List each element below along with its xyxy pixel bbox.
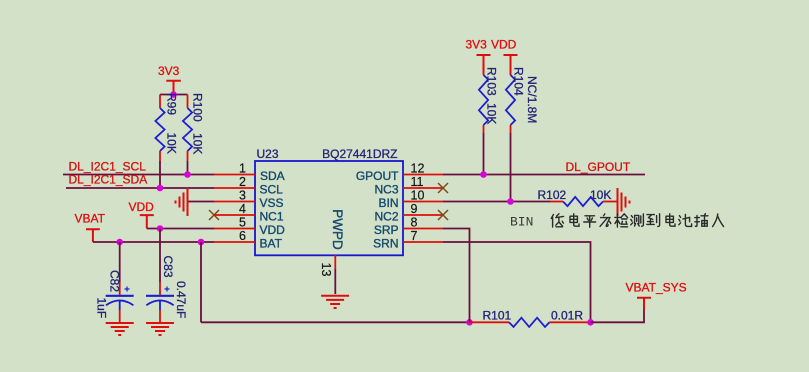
pin 2 SCL (214, 175, 283, 197)
svg-text:10K: 10K (165, 133, 179, 154)
wire VDD to pin5 (147, 228, 214, 230)
svg-text:VDD: VDD (129, 200, 155, 214)
net DL_I2C1_SDA (66, 173, 214, 188)
junction SRP/bus (466, 319, 473, 326)
resistor R101 0.01R (470, 309, 591, 327)
net DL_GPOUT (443, 160, 645, 175)
pin 10 BIN (378, 189, 443, 211)
svg-text:3: 3 (239, 189, 246, 203)
svg-text:SRN: SRN (373, 237, 398, 251)
ic U23 BQ27441DRZ (255, 147, 403, 255)
power VDD (left) (129, 200, 155, 229)
svg-text:5: 5 (239, 216, 246, 230)
junction 3V3 node (170, 91, 177, 98)
svg-text:11: 11 (411, 175, 424, 189)
svg-text:1: 1 (239, 162, 246, 176)
wire BIN net (443, 201, 550, 203)
wire R100 to SCL (187, 161, 189, 175)
wire R104 to BIN (510, 133, 512, 202)
svg-text:VSS: VSS (260, 196, 284, 210)
ground VSS (rotated) (176, 188, 215, 216)
no-connect X pin9 (438, 210, 448, 220)
svg-text:NC1: NC1 (260, 210, 284, 224)
capacitor C83 0.47uF (146, 229, 188, 323)
pin 8 SRP (374, 216, 443, 238)
svg-text:SCL: SCL (260, 183, 284, 197)
pin 5 VDD (214, 216, 285, 238)
svg-text:VDD: VDD (260, 223, 286, 237)
wire SRN down (443, 242, 591, 322)
pin 4 NC1 (214, 202, 284, 224)
svg-text:1uF: 1uF (95, 298, 109, 319)
svg-text:DL_I2C1_SDA: DL_I2C1_SDA (69, 173, 148, 187)
junction C82/BAT (116, 239, 123, 246)
svg-text:NC2: NC2 (374, 210, 398, 224)
svg-text:R102: R102 (538, 188, 567, 202)
net DL_I2C1_SCL (63, 159, 214, 174)
pin 1 SDA (214, 162, 285, 184)
svg-text:SRP: SRP (374, 223, 399, 237)
resistor R99 10K (155, 93, 178, 161)
junction SCL/R100 (184, 171, 191, 178)
wire 3V3 rail to R99/R100 tops (160, 94, 188, 96)
svg-text:BAT: BAT (260, 237, 283, 251)
svg-text:10: 10 (411, 189, 425, 203)
svg-text:8: 8 (411, 216, 418, 230)
junction R104/R102/BIN (507, 198, 514, 205)
ground right of R102 (rotated) (618, 188, 630, 216)
svg-text:SDA: SDA (260, 169, 285, 183)
wire VBAT bus to pin6 (93, 241, 214, 243)
pin 6 BAT (214, 229, 283, 251)
wire pin13 to ground (334, 269, 336, 294)
wire BAT bus down to bottom bus (200, 242, 202, 322)
power 3V3 (left) (158, 64, 181, 94)
svg-text:GPOUT: GPOUT (356, 169, 399, 183)
svg-text:3V3: 3V3 (466, 38, 488, 52)
wire R99 to SDA (159, 161, 161, 188)
svg-text:3V3: 3V3 (158, 64, 180, 78)
junction SDA/R99 (157, 185, 164, 192)
junction VDD/C83 (157, 225, 164, 232)
text chinese note 低电平为检测到电池插入 (551, 214, 723, 228)
pin 7 SRN (373, 229, 443, 251)
svg-text:13: 13 (319, 263, 333, 277)
svg-text:2: 2 (239, 175, 246, 189)
svg-text:4: 4 (239, 202, 246, 216)
pin 13 PWPD (319, 209, 345, 276)
junction R103/GPOUT (480, 171, 487, 178)
wire R103 to GPOUT (483, 133, 485, 175)
svg-text:VBAT_SYS: VBAT_SYS (626, 281, 687, 295)
svg-text:0.47uF: 0.47uF (174, 281, 188, 318)
svg-text:12: 12 (411, 162, 425, 176)
svg-text:NC/1.8M: NC/1.8M (525, 76, 539, 123)
svg-text:R104: R104 (512, 67, 526, 96)
svg-text:6: 6 (239, 229, 246, 243)
svg-text:U23: U23 (257, 147, 279, 161)
no-connect X pin4 (209, 210, 219, 220)
svg-text:PWPD: PWPD (330, 209, 345, 250)
svg-text:VDD: VDD (491, 38, 517, 52)
power 3V3 (right) (466, 38, 491, 76)
power VDD (right) (491, 38, 518, 76)
svg-text:NC3: NC3 (374, 183, 398, 197)
svg-text:BIN: BIN (510, 215, 533, 230)
pin 12 GPOUT (356, 162, 443, 184)
pin 9 NC2 (374, 202, 443, 224)
svg-text:C82: C82 (108, 270, 122, 292)
resistor R100 10K (183, 93, 205, 161)
svg-text:VBAT: VBAT (75, 212, 106, 226)
svg-text:10K: 10K (191, 133, 205, 154)
svg-text:BQ27441DRZ: BQ27441DRZ (322, 147, 397, 161)
ground below PWPD (321, 296, 349, 308)
svg-text:R103: R103 (485, 67, 499, 96)
ground below C83 (146, 323, 174, 335)
svg-text:0.01R: 0.01R (551, 309, 583, 323)
svg-text:R101: R101 (483, 309, 512, 323)
svg-text:R99: R99 (165, 93, 179, 115)
capacitor C82 1uF (95, 242, 134, 322)
wire to VBAT_SYS (591, 309, 645, 322)
text BIN comment (510, 215, 533, 230)
svg-text:R100: R100 (191, 93, 205, 122)
resistor R102 10K (538, 188, 618, 206)
svg-text:DL_I2C1_SCL: DL_I2C1_SCL (69, 159, 147, 173)
svg-text:9: 9 (411, 202, 418, 216)
svg-text:C83: C83 (161, 256, 175, 278)
resistor R104 NC/1.8M (506, 67, 539, 133)
svg-text:DL_GPOUT: DL_GPOUT (566, 160, 631, 174)
power VBAT (75, 212, 106, 243)
junction BAT/down-wire (198, 239, 205, 246)
ground below C82 (106, 323, 134, 335)
svg-text:7: 7 (411, 229, 418, 243)
svg-text:10K: 10K (485, 103, 499, 124)
wire SRP down (443, 229, 470, 323)
power VBAT_SYS (626, 281, 687, 311)
resistor R103 10K (479, 67, 499, 133)
svg-text:10K: 10K (590, 188, 611, 202)
wire bottom bus (201, 321, 470, 323)
no-connect X pin11 (438, 183, 448, 193)
svg-text:BIN: BIN (378, 196, 398, 210)
junction R101/SRN (587, 319, 594, 326)
pin 11 NC3 (374, 175, 443, 197)
pin 3 VSS (214, 189, 284, 211)
